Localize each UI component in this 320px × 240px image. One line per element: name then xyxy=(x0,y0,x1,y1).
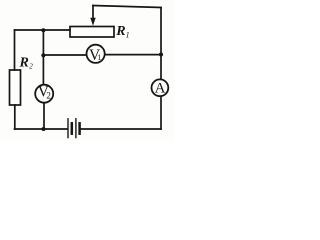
wire V1 right xyxy=(105,54,161,56)
svg-text:2: 2 xyxy=(46,91,51,101)
svg-text:R: R xyxy=(115,24,125,39)
svg-text:1: 1 xyxy=(97,53,101,62)
wire wiper vertical shaft xyxy=(92,6,94,20)
resistor R2 xyxy=(10,70,21,105)
wire V2 bottom (circle to bottom wire) xyxy=(43,103,45,129)
wire bottom-right (battery to bottom-right corner) xyxy=(81,128,161,130)
svg-text:2: 2 xyxy=(29,62,33,70)
node junction dot at right vertical (V1 right) xyxy=(159,53,163,57)
wire left vertical upper (top wire down to R2 top) xyxy=(14,30,16,70)
battery xyxy=(68,119,80,138)
wire V1 left xyxy=(43,54,86,56)
wire top horizontal (node A: top-left to rheostat left terminal) xyxy=(15,29,71,31)
node junction dot on bottom wire (V2 branch) xyxy=(42,127,46,131)
voltmeter V1 circle xyxy=(87,45,105,63)
wire right vertical upper (top-right corner to ammeter) xyxy=(160,8,162,80)
ammeter A circle xyxy=(152,79,169,96)
svg-text:A: A xyxy=(155,81,166,97)
node junction dot at V1 left branch xyxy=(41,53,45,57)
wire wiper horizontal (wiper to top-right corner) xyxy=(93,6,161,8)
node junction dot at top wire (branch to V1/V2) xyxy=(41,28,45,32)
rheostat R1 body xyxy=(70,27,114,38)
wire bottom-left (to battery) xyxy=(15,128,67,130)
rheostat R1 wiper arrowhead xyxy=(90,18,95,26)
wire left vertical lower (R2 bottom to bottom wire) xyxy=(14,105,16,129)
voltmeter V2 circle xyxy=(35,85,53,103)
wire right vertical lower (ammeter to bottom) xyxy=(160,96,162,129)
svg-text:1: 1 xyxy=(126,31,130,40)
wire branch vertical (top wire down through V1 node to V2 top) xyxy=(42,30,44,85)
svg-text:R: R xyxy=(19,56,29,71)
